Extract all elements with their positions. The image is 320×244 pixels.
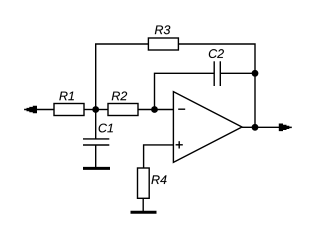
wire op-amp output to output node (242, 126, 255, 128)
wire R4 to ground (142, 198, 144, 211)
terminal arrow IN (left, pointing left) (24, 106, 37, 114)
wire node A down to C1 (95, 110, 97, 139)
resistor R3 (148, 38, 178, 50)
node C junction (C2/R3 feedback line) (252, 70, 259, 77)
label C2 (209, 49, 224, 58)
wire R2 to node B (138, 109, 155, 111)
op-amp U1 (173, 92, 242, 163)
wire node B to op-amp inverting input (155, 109, 174, 111)
wire C1 to ground (95, 145, 97, 168)
node A junction (R1/R2/C1/R3) (92, 106, 99, 113)
wire node A to R2 (96, 109, 108, 111)
node B junction (R2/C2/op-amp inverting input) (151, 106, 158, 113)
label R4 (151, 175, 166, 184)
resistor R1 (54, 104, 84, 116)
wire R1 to node A (84, 109, 96, 111)
wire node B up to C2 (155, 73, 215, 109)
label R1 (59, 92, 74, 101)
terminal arrow OUT (right, pointing right) (279, 124, 292, 132)
output node junction (252, 124, 259, 131)
capacitor C2 (214, 61, 220, 86)
resistor R2 (108, 104, 138, 116)
label C1 (99, 124, 113, 133)
resistor R4 (138, 168, 150, 198)
op-amp inverting input mark (-) (178, 108, 185, 110)
wire R3 to top-right corner (178, 44, 255, 73)
label R2 (112, 91, 127, 100)
wire node A up (left vertical of R3 feedback) (96, 44, 149, 110)
wire output node to OUT arrow (255, 126, 280, 128)
capacitor C1 (83, 139, 109, 145)
wire non-inverting input (144, 145, 174, 168)
wire node C down to output node (254, 73, 256, 127)
ground (under C1) (83, 167, 110, 170)
wire IN arrow to R1 (37, 109, 55, 111)
label R3 (155, 25, 170, 34)
ground (under R4) (131, 211, 157, 214)
wire C2 to node C (220, 72, 255, 74)
op-amp non-inverting input mark (+) (176, 141, 183, 148)
